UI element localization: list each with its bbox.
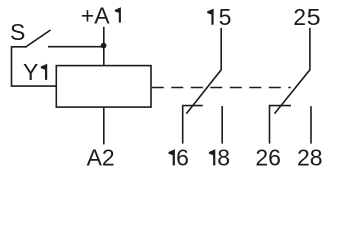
svg-text:2: 2 <box>293 4 306 30</box>
svg-text:28: 28 <box>297 145 323 171</box>
svg-text:A2: A2 <box>87 144 115 170</box>
svg-text:6: 6 <box>176 145 189 171</box>
svg-text:5: 5 <box>307 4 321 30</box>
svg-text:Y: Y <box>23 59 38 85</box>
svg-text:8: 8 <box>217 145 230 171</box>
svg-text:S: S <box>10 19 25 45</box>
svg-text:5: 5 <box>219 4 232 30</box>
svg-text:+A: +A <box>81 2 110 28</box>
svg-text:26: 26 <box>255 145 281 171</box>
